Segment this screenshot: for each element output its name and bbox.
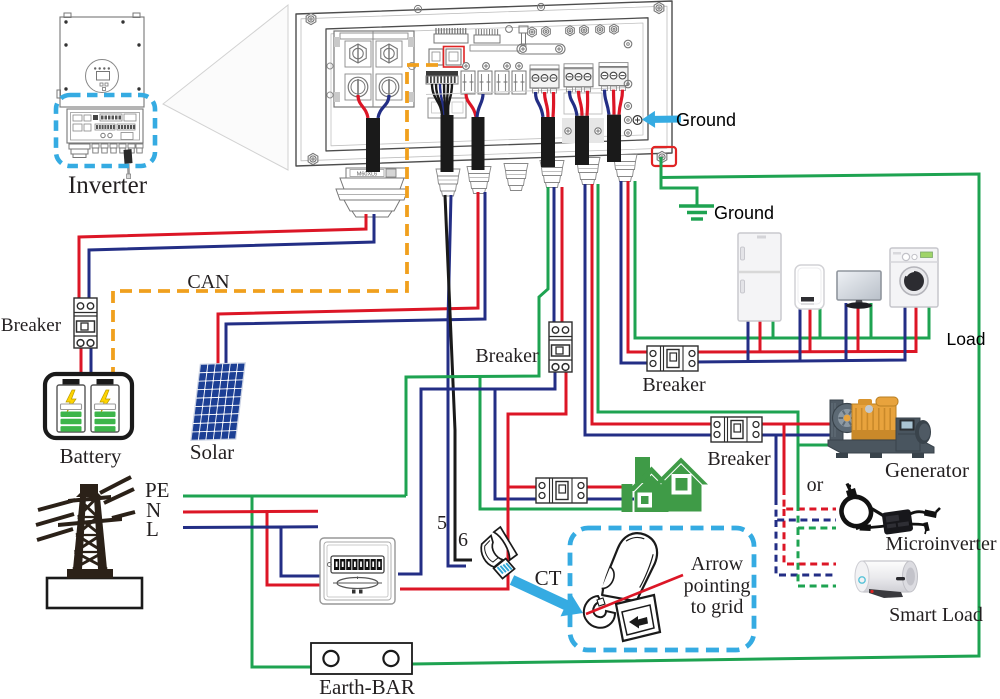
svg-text:CT: CT	[535, 566, 562, 590]
svg-text:5: 5	[437, 512, 447, 534]
svg-text:Load: Load	[947, 329, 986, 349]
svg-text:Microinverter: Microinverter	[885, 533, 996, 555]
svg-text:Breaker: Breaker	[1, 315, 62, 336]
svg-text:Earth-BAR: Earth-BAR	[319, 675, 415, 699]
svg-text:CAN: CAN	[187, 271, 229, 293]
svg-text:Generator: Generator	[885, 458, 969, 482]
svg-text:or: or	[807, 474, 824, 496]
svg-text:6: 6	[458, 529, 468, 551]
svg-text:Inverter: Inverter	[68, 172, 148, 199]
svg-text:Ground: Ground	[676, 110, 736, 130]
svg-text:pointing: pointing	[684, 575, 751, 597]
svg-text:Battery: Battery	[60, 444, 122, 468]
svg-text:Breaker: Breaker	[707, 448, 771, 470]
svg-text:M60XL6: M60XL6	[357, 172, 378, 178]
svg-text:to grid: to grid	[691, 596, 744, 618]
svg-text:Arrow: Arrow	[691, 553, 744, 575]
svg-text:Breaker: Breaker	[642, 374, 706, 396]
svg-text:Ground: Ground	[714, 203, 774, 223]
svg-text:Solar: Solar	[190, 440, 234, 464]
svg-text:L: L	[146, 517, 159, 541]
svg-text:Breaker: Breaker	[475, 345, 539, 367]
svg-text:Smart Load: Smart Load	[889, 604, 983, 626]
